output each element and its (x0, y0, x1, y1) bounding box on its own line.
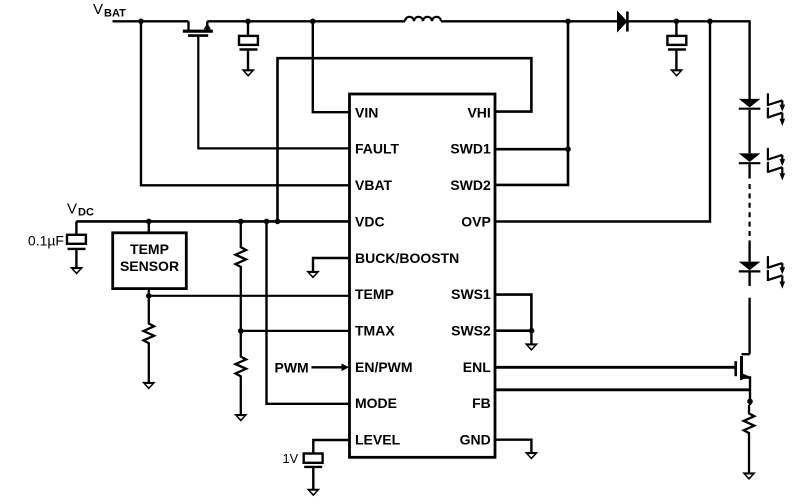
ground for V1 (306, 489, 320, 497)
svg-text:OVP: OVP (461, 213, 491, 229)
ground for C1 (241, 69, 255, 77)
ground for C2 (670, 69, 684, 77)
wire SWS1 pin (495, 295, 531, 331)
transistor Q1 PMOS high-side switch (183, 21, 213, 35)
wire top rail left segment (113, 20, 189, 22)
svg-text:SWD1: SWD1 (450, 141, 491, 157)
wire ENL pin to Q2 gate (495, 366, 734, 369)
source V1 1V reference (304, 454, 323, 490)
svg-text:GND: GND (460, 432, 491, 448)
wire LED D4 to NMOS drain (with gap) (748, 273, 750, 355)
wire GND pin to ground (495, 440, 531, 453)
svg-text:VHI: VHI (467, 104, 490, 120)
svg-text:SWS2: SWS2 (451, 323, 491, 339)
wire VHI pin loop to VDC node (278, 58, 532, 221)
svg-text:SENSOR: SENSOR (120, 258, 179, 274)
wire VDC rail (76, 220, 349, 223)
wire temp sensor bottom to TEMP pin (149, 289, 350, 296)
inductor L1 (405, 17, 441, 22)
transistor Q2 NMOS low-side switch (736, 354, 750, 405)
chip U1 LED driver (350, 94, 496, 457)
svg-text:VBAT: VBAT (355, 177, 393, 193)
wire LEVEL pin to 1V source (313, 440, 349, 454)
svg-text:V: V (93, 1, 103, 18)
node junction TMAX (238, 328, 244, 334)
node junction at SWD branch (565, 19, 571, 25)
capacitor C2 output cap (667, 21, 686, 69)
node junction FB / R3 (747, 399, 753, 405)
wire SWD1 pin (495, 148, 568, 151)
node junction at OVP branch (707, 19, 713, 25)
node junction on rail at VBAT branch (138, 19, 144, 25)
wire LED D2 to LED D3 (748, 110, 750, 154)
temp sensor block (113, 233, 187, 289)
node VDC rail label (67, 200, 94, 218)
wire SWD2 branch vertical (495, 21, 568, 185)
ground for R4 (234, 414, 248, 422)
resistor R4 divider lower (236, 331, 247, 414)
svg-text:FAULT: FAULT (355, 141, 400, 157)
node junction VDC / temp sensor (146, 219, 152, 225)
wire TMAX pin (241, 330, 350, 332)
capacitor C1 input cap (239, 21, 258, 69)
capacitor C3 0.1uF (67, 221, 86, 267)
wire VDC to temp sensor top (148, 221, 150, 232)
wire LED D3 lower lead (748, 164, 750, 178)
svg-text:TEMP: TEMP (130, 241, 169, 257)
wire FB pin to Q2 source (495, 388, 750, 391)
wire dashed LED string continuation (748, 184, 750, 243)
wire top rail middle segment (207, 20, 405, 22)
svg-text:EN/PWM: EN/PWM (355, 359, 413, 375)
wire BUCK/BOOSTN to ground (313, 258, 350, 271)
node junction at VIN branch (310, 19, 316, 25)
wire rail inductor to diode (441, 20, 617, 22)
diode D1 rectifier (617, 10, 627, 32)
svg-text:TMAX: TMAX (355, 323, 395, 339)
svg-text:TEMP: TEMP (355, 286, 394, 302)
LED D2 with light arrows (739, 93, 785, 126)
node junction VDC / VHI branch (275, 219, 281, 225)
wire SWS2 pin (495, 329, 531, 332)
svg-text:V: V (67, 200, 77, 217)
node junction VDC / R2 (238, 219, 244, 225)
resistor R1 temp sensor load (144, 296, 155, 382)
svg-text:FB: FB (472, 395, 491, 411)
svg-text:MODE: MODE (355, 395, 397, 411)
ground for R3 (742, 472, 756, 480)
LED D3 with light arrows (739, 148, 785, 181)
LED D4 with light arrows (739, 256, 785, 289)
wire rail diode to LED string corner (627, 21, 749, 99)
svg-text:BUCK/BOOSTN: BUCK/BOOSTN (355, 250, 459, 266)
wire VBAT branch to VBAT pin (141, 21, 350, 185)
svg-text:1V: 1V (283, 451, 299, 466)
ground for BUCK/BOOSTN (306, 271, 320, 279)
node junction SWS2 (529, 328, 535, 334)
ground for GND pin (525, 452, 539, 460)
resistor R3 current sense (744, 405, 755, 473)
wire OVP branch (495, 21, 710, 221)
node junction at C2 (674, 19, 680, 25)
svg-text:ENL: ENL (463, 359, 491, 375)
svg-text:VIN: VIN (355, 104, 378, 120)
svg-text:PWM: PWM (275, 359, 309, 375)
node junction at C1 (245, 19, 251, 25)
wire dashed to LED D4 (748, 243, 750, 262)
svg-text:DC: DC (78, 207, 94, 219)
wire PWM input arrow (311, 364, 349, 372)
svg-text:VDC: VDC (355, 213, 385, 229)
wire MODE branch (267, 221, 350, 403)
svg-text:SWS1: SWS1 (451, 286, 491, 302)
wire Q1 gate to FAULT pin (198, 37, 349, 149)
node VBAT rail label (93, 1, 126, 19)
ground for C3 (70, 267, 84, 275)
node junction VDC / MODE branch (264, 219, 270, 225)
svg-text:0.1µF: 0.1µF (28, 232, 64, 248)
ground for SWS (525, 343, 539, 351)
resistor R2 divider upper (236, 221, 247, 331)
wire SWS2 to ground (530, 331, 532, 344)
svg-text:LEVEL: LEVEL (355, 432, 401, 448)
node junction TEMP (146, 293, 152, 299)
node junction SWD1 (565, 146, 571, 152)
wire VIN branch (313, 21, 350, 112)
svg-text:SWD2: SWD2 (450, 177, 491, 193)
ground for R1 (142, 382, 156, 390)
svg-text:BAT: BAT (104, 7, 126, 19)
